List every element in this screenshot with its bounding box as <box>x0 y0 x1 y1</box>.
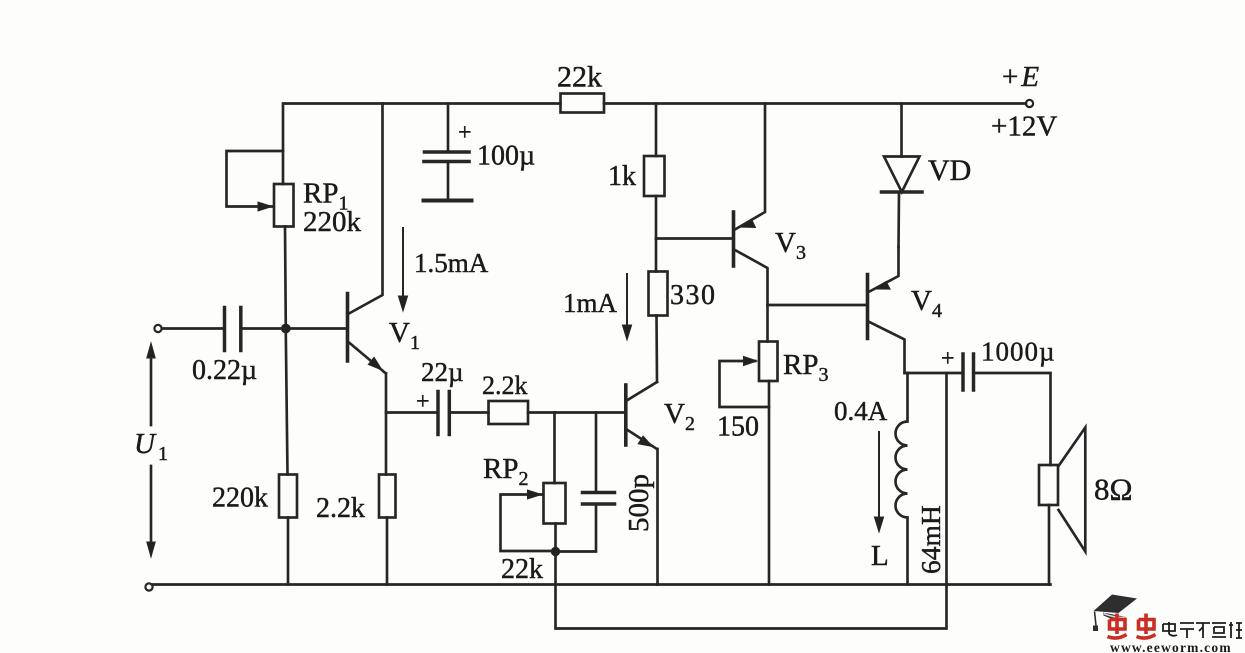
svg-text:+E: +E <box>1002 61 1039 93</box>
potentiometer RP3 <box>720 305 778 585</box>
label VD <box>928 154 971 187</box>
wire: input to coupling cap <box>162 327 224 330</box>
svg-text:RP2: RP2 <box>483 453 528 490</box>
label V2 <box>664 398 695 435</box>
watermark text www.eeworm.com <box>1110 640 1232 653</box>
svg-text:L: L <box>871 540 889 572</box>
capacitor 22u <box>438 392 449 435</box>
label L <box>871 540 889 572</box>
terminal input top <box>154 325 161 332</box>
label 500p (rotated) <box>623 474 655 532</box>
capacitor 100u (supply filter) <box>424 104 472 201</box>
svg-text:500p: 500p <box>623 474 655 532</box>
transistor V3 <box>734 104 768 306</box>
label V1 <box>389 317 420 354</box>
resistor 220k (bias) <box>279 333 297 585</box>
svg-text:V1: V1 <box>389 317 420 354</box>
svg-text:150: 150 <box>717 412 759 443</box>
current arrow 1.5mA <box>398 228 407 311</box>
label + (100u polarity) <box>458 120 472 146</box>
label 2.2k <box>482 371 528 400</box>
watermark logo graduation cap <box>1093 595 1137 632</box>
watermark text dianzi xiazai zhan (black) <box>1163 622 1242 638</box>
terminal +E <box>1026 100 1033 107</box>
svg-text:22µ: 22µ <box>421 357 464 387</box>
svg-text:+: + <box>416 389 430 415</box>
svg-text:V2: V2 <box>664 398 695 435</box>
label 22k (RP2) <box>501 554 543 585</box>
wire: RP1 bottom to input node <box>284 227 287 329</box>
label +12V <box>991 111 1057 143</box>
resistor 22k (supply decoupling) <box>561 94 605 113</box>
wire: bottom ground rail <box>153 583 1051 586</box>
wire: 1k bottom to V3 base <box>656 237 732 240</box>
label 150 <box>717 412 759 443</box>
label 0.22u <box>192 355 257 386</box>
label 220k <box>212 483 268 514</box>
svg-text:RP3: RP3 <box>783 349 828 386</box>
wire: V3 collector to V4 base <box>768 304 867 307</box>
svg-text:2.2k: 2.2k <box>482 371 528 400</box>
svg-text:V4: V4 <box>911 285 942 322</box>
svg-text:22k: 22k <box>501 554 543 585</box>
label 1k <box>608 161 636 192</box>
label + (22u polarity) <box>416 389 430 415</box>
label 100u <box>477 141 535 172</box>
label 1000u <box>981 337 1056 367</box>
node A (input junction dot) <box>281 324 290 333</box>
current arrow 0.4A <box>874 432 883 532</box>
svg-text:100µ: 100µ <box>477 141 535 172</box>
wire: emitter to 22u <box>386 411 437 414</box>
label 1mA <box>563 288 618 318</box>
svg-text:U: U <box>134 428 157 460</box>
terminal input bottom <box>145 583 152 590</box>
wire: feedback line from node B <box>556 373 947 629</box>
label 22u <box>421 357 464 387</box>
capacitor 500p <box>558 413 615 552</box>
inductor L 64mH <box>896 373 908 585</box>
label RP1 220k <box>303 178 362 239</box>
svg-text:+: + <box>941 346 955 372</box>
label RP2 <box>483 453 528 490</box>
svg-text:330: 330 <box>670 280 717 311</box>
label U1 with measurement arrows <box>147 343 155 557</box>
watermark text chongchong (red) <box>1108 614 1156 639</box>
label +E <box>1002 61 1039 93</box>
svg-text:2.2k: 2.2k <box>316 493 365 524</box>
label 8 ohm <box>1094 472 1133 507</box>
svg-text:22k: 22k <box>557 61 602 94</box>
svg-text:+12V: +12V <box>991 111 1057 143</box>
wire: 2.2k to V2 base <box>528 411 625 414</box>
svg-text:0.22µ: 0.22µ <box>192 355 257 386</box>
svg-text:0.4A: 0.4A <box>834 396 888 426</box>
capacitor 1000u <box>963 354 974 390</box>
potentiometer RP2 <box>501 413 566 552</box>
svg-text:1k: 1k <box>608 161 636 192</box>
svg-text:www.eeworm.com: www.eeworm.com <box>1110 640 1232 653</box>
label 330 <box>670 280 717 311</box>
node B (RP2 bottom junction dot) <box>551 547 559 555</box>
wire: top supply rail left segment <box>283 104 561 185</box>
resistor 330 <box>649 239 668 383</box>
svg-text:V3: V3 <box>775 227 806 264</box>
svg-text:220k: 220k <box>303 206 362 238</box>
transistor V1 <box>348 104 386 374</box>
label V3 <box>775 227 806 264</box>
svg-text:1: 1 <box>158 443 168 465</box>
svg-text:220k: 220k <box>212 483 268 514</box>
wire: cap to node A to V1 base <box>243 327 347 330</box>
label RP3 <box>783 349 828 386</box>
wire: V1 emitter down <box>385 373 388 474</box>
potentiometer RP1 <box>227 151 294 227</box>
current arrow 1mA <box>622 274 631 340</box>
wire: top supply rail right segment <box>604 102 1026 105</box>
label + (1000u polarity) <box>941 346 955 372</box>
diode VD <box>882 104 923 248</box>
label 22k <box>557 61 602 94</box>
resistor 1k <box>644 104 665 239</box>
label 64mH (rotated) <box>915 505 946 574</box>
svg-text:1.5mA: 1.5mA <box>414 248 489 278</box>
transistor V4 <box>868 247 905 373</box>
svg-text:1000µ: 1000µ <box>981 337 1056 367</box>
speaker 8 ohm <box>1039 428 1085 585</box>
label 0.4A <box>834 396 888 426</box>
svg-text:1mA: 1mA <box>563 288 618 318</box>
label 1.5mA <box>414 248 489 278</box>
svg-text:64mH: 64mH <box>915 505 946 574</box>
wire: V4 emitter node <box>905 372 963 375</box>
label V4 <box>911 285 942 322</box>
svg-text:+: + <box>458 120 472 146</box>
resistor 2.2k (coupling series) <box>451 401 529 424</box>
label 2.2k <box>316 493 365 524</box>
capacitor 0.22u <box>225 308 241 351</box>
wire: 1000u to speaker <box>975 373 1051 465</box>
transistor V2 <box>626 382 658 585</box>
svg-text:8Ω: 8Ω <box>1094 472 1133 507</box>
resistor 2.2k (V1 emitter) <box>379 475 396 585</box>
svg-text:VD: VD <box>928 154 971 187</box>
